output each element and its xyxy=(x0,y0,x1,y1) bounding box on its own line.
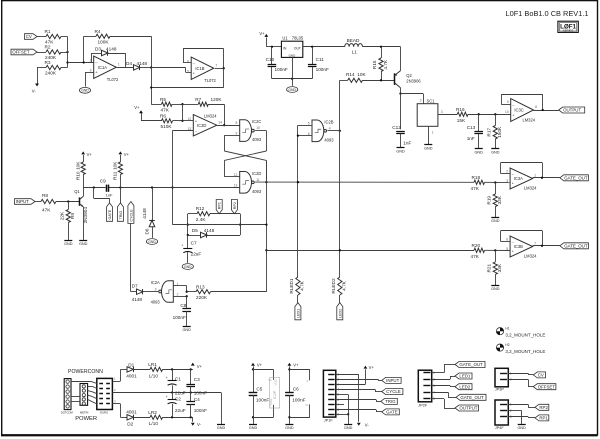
wire jp4 pin3 route xyxy=(508,417,535,418)
wire D4 to IC1B noninv xyxy=(140,67,151,69)
svg-text:GND: GND xyxy=(79,242,88,246)
svg-text:GATE_OUT: GATE_OUT xyxy=(564,243,588,248)
svg-text:C1: C1 xyxy=(175,377,181,382)
svg-text:V-: V- xyxy=(32,89,37,94)
svg-text:2.4K: 2.4K xyxy=(196,217,207,222)
svg-text:GATE: GATE xyxy=(386,410,398,415)
capacitor C1 xyxy=(166,376,186,395)
wire middle rail y=224.6 xyxy=(173,224,267,226)
wire C1 top stub xyxy=(172,369,174,380)
wire IC3C out xyxy=(534,109,559,111)
power V+ above C5 xyxy=(251,362,263,367)
wire R21 to gnd xyxy=(495,274,497,285)
svg-text:L/10: L/10 xyxy=(149,421,159,426)
svg-text:LM324: LM324 xyxy=(524,254,537,259)
wire IC3D out xyxy=(217,125,240,127)
wire R11 bottom xyxy=(120,175,122,188)
wire Q2 top xyxy=(400,47,402,71)
wire U1 gnd pin xyxy=(292,57,294,78)
node LED2 xyxy=(455,384,472,390)
node GATE_OUT xyxy=(560,243,589,249)
svg-text:R20: R20 xyxy=(472,243,481,248)
wire R6 to junction xyxy=(173,120,184,122)
svg-text:SERIES: SERIES xyxy=(563,29,573,33)
svg-text:78L05: 78L05 xyxy=(292,35,304,40)
svg-text:U1: U1 xyxy=(282,35,288,40)
wire column x=339.8 upper xyxy=(339,80,341,277)
svg-text:10: 10 xyxy=(256,126,260,130)
svg-text:OUTPUT: OUTPUT xyxy=(459,406,477,411)
svg-text:IC3D: IC3D xyxy=(197,123,206,128)
wire R10 top stub xyxy=(83,155,85,162)
wire C1 bottom stub xyxy=(172,385,174,392)
svg-text:GND: GND xyxy=(491,219,500,223)
svg-text:2: 2 xyxy=(177,293,179,297)
svg-text:GATE_OUT: GATE_OUT xyxy=(564,175,588,180)
resistor R12 xyxy=(196,206,210,222)
resistor R7 xyxy=(195,97,222,106)
wire R14 left xyxy=(340,80,348,82)
wire jp4 pin1 route xyxy=(508,404,535,407)
svg-text:C7: C7 xyxy=(191,241,197,246)
svg-text:+: + xyxy=(181,244,183,248)
ground GND under R9 xyxy=(64,241,73,246)
svg-text:GND: GND xyxy=(491,287,500,291)
svg-text:R15: R15 xyxy=(372,60,377,69)
wire fb down to loop xyxy=(151,68,224,87)
connector JP1F xyxy=(323,370,339,422)
svg-text:5: 5 xyxy=(506,247,508,251)
power V+ near R6 xyxy=(134,105,143,113)
svg-text:IC2A: IC2A xyxy=(151,280,160,285)
wire C7 to gnd xyxy=(187,252,189,263)
svg-text:12: 12 xyxy=(234,173,238,177)
resistor R1 xyxy=(45,29,62,45)
svg-text:6: 6 xyxy=(506,238,508,242)
wire D3 anode xyxy=(91,53,102,63)
wire Q1 emitter xyxy=(83,207,85,240)
svg-text:CYCLE: CYCLE xyxy=(386,389,401,394)
svg-text:GND: GND xyxy=(288,88,296,92)
wire R17 to gnd xyxy=(495,139,497,149)
resistor R13 xyxy=(196,285,211,301)
svg-text:D6: D6 xyxy=(145,228,150,234)
op-amp IC3C xyxy=(505,99,537,123)
capacitor C11 xyxy=(308,57,329,72)
diode D2 xyxy=(126,409,137,426)
svg-text:D5: D5 xyxy=(192,228,198,233)
wire rail y=250.3 xyxy=(266,249,474,251)
svg-text:GND: GND xyxy=(184,265,192,269)
svg-text:1: 1 xyxy=(432,131,434,135)
transistor Q2 2N3906 xyxy=(394,71,421,88)
wire C5 column bottom xyxy=(252,395,254,424)
svg-text:R7: R7 xyxy=(195,97,201,102)
svg-text:OUTPUT: OUTPUT xyxy=(563,108,581,113)
wire IC2D out long wire xyxy=(255,181,474,183)
wire R9 to gnd xyxy=(68,223,70,240)
wire left trunk xyxy=(150,68,152,105)
svg-text:GND: GND xyxy=(285,426,294,430)
svg-text:9: 9 xyxy=(235,132,237,136)
svg-text:R9: R9 xyxy=(70,213,75,219)
node LED1 xyxy=(455,373,472,379)
wire C10 top xyxy=(271,47,273,64)
regulator U1 78L05 xyxy=(281,35,304,57)
svg-text:R11: R11 xyxy=(113,171,118,180)
svg-text:R19: R19 xyxy=(486,196,491,205)
svg-text:47K: 47K xyxy=(42,208,51,213)
wire IC2C in9 route xyxy=(224,135,239,151)
wire C2 top stub xyxy=(172,393,174,400)
wire R5 to junction xyxy=(172,103,184,105)
wire IC2B in6 xyxy=(298,135,312,137)
wire R14 to Q2 base xyxy=(363,79,395,81)
wire IC3A out xyxy=(533,177,560,179)
wire R16 to IC3C xyxy=(468,113,511,115)
wire C6 column top xyxy=(288,366,290,392)
svg-text:IC1A: IC1A xyxy=(98,65,107,70)
svg-text:150K: 150K xyxy=(497,126,502,138)
capacitor C12 xyxy=(392,125,411,146)
svg-text:+: + xyxy=(166,395,168,399)
svg-text:120K: 120K xyxy=(211,97,223,102)
wire d2 to lr2 xyxy=(133,417,150,419)
node OFFSET xyxy=(11,49,37,55)
svg-text:4.7K: 4.7K xyxy=(383,59,388,70)
wire jp1 pin2 to INPUT xyxy=(336,379,382,380)
ground GND under R19 xyxy=(491,218,500,224)
wire jp1 pin7 stub xyxy=(336,404,344,406)
NAND gate IC2C xyxy=(235,119,261,142)
svg-text:IC2D: IC2D xyxy=(252,171,261,176)
wire C5 column top xyxy=(252,366,254,392)
wire C11 top xyxy=(312,47,314,64)
wire to IC1B noninv xyxy=(151,67,191,72)
wire GATE branch xyxy=(94,188,110,203)
svg-text:POWER: POWER xyxy=(75,416,97,422)
svg-text:CV: CV xyxy=(538,373,544,378)
svg-text:4148: 4148 xyxy=(132,297,143,302)
wire IC1A out to D4 xyxy=(116,67,133,69)
svg-text:4093: 4093 xyxy=(252,189,262,194)
resistor R21 xyxy=(486,262,502,275)
svg-text:33K: 33K xyxy=(497,263,502,272)
svg-text:EURO: EURO xyxy=(100,410,108,414)
wire Q1 collector xyxy=(83,188,85,197)
svg-text:47K: 47K xyxy=(161,107,170,112)
node INPUT xyxy=(15,199,36,205)
wire conn wires b xyxy=(88,386,97,388)
resistor RLED2 xyxy=(331,277,347,295)
svg-text:LM324: LM324 xyxy=(523,118,536,123)
svg-text:7: 7 xyxy=(215,64,217,68)
svg-text:RP1: RP1 xyxy=(539,416,548,421)
svg-text:R14: R14 xyxy=(346,72,355,77)
wire IC2P vss loop xyxy=(253,405,274,418)
wire IC2B input column xyxy=(297,125,299,277)
wire jp1 pin8 to GATE xyxy=(336,410,382,412)
svg-text:CYCLE: CYCLE xyxy=(129,209,133,222)
svg-text:22uF: 22uF xyxy=(175,391,186,396)
svg-text:+: + xyxy=(166,376,168,380)
ground GND under IC1A xyxy=(79,87,90,93)
wire C6 column bottom xyxy=(288,395,290,424)
title text xyxy=(506,9,589,18)
wire CV to R1 xyxy=(37,36,46,38)
wire jp1 pin3 to V+ xyxy=(336,369,366,384)
wire R19 top stub xyxy=(495,183,497,195)
svg-text:V+: V+ xyxy=(134,105,140,110)
svg-text:C4: C4 xyxy=(194,397,200,402)
ground GND under C7 xyxy=(182,264,193,270)
svg-text:C10: C10 xyxy=(266,57,275,62)
svg-text:R18: R18 xyxy=(472,175,481,180)
wire C13 top xyxy=(478,114,480,131)
svg-text:1nF: 1nF xyxy=(403,141,411,146)
power V+ above R11 xyxy=(119,151,130,156)
op-amp IC3D xyxy=(188,114,223,136)
svg-text:GATE_OUT: GATE_OUT xyxy=(459,362,483,367)
node OUTPUT xyxy=(559,107,585,113)
svg-text:TL072: TL072 xyxy=(107,77,119,82)
svg-text:100K: 100K xyxy=(98,39,110,44)
node CYCLE xyxy=(382,389,403,395)
wire RLED2 to LED2 xyxy=(339,295,341,303)
capacitor C4 xyxy=(186,397,207,413)
svg-text:TL072: TL072 xyxy=(204,78,216,83)
svg-text:4001: 4001 xyxy=(126,409,137,414)
capacitor C5 xyxy=(249,387,270,403)
svg-text:GND: GND xyxy=(344,426,353,430)
svg-text:V+: V+ xyxy=(124,152,130,157)
resistor R6 xyxy=(160,113,173,129)
connector X1 DOTCON xyxy=(61,379,74,415)
svg-text:3: 3 xyxy=(506,179,508,183)
node TRIG xyxy=(381,398,398,404)
resistor R15 xyxy=(372,58,388,72)
wire jp3 pin2 route xyxy=(508,379,533,386)
wire V+ to U1 in xyxy=(266,38,281,48)
svg-text:3: 3 xyxy=(433,384,435,388)
svg-text:11: 11 xyxy=(305,403,308,407)
wire IC3B feedback xyxy=(501,231,543,246)
connector JP2F xyxy=(418,370,435,407)
wire R9 top stub xyxy=(68,202,70,210)
NAND gate IC2A xyxy=(151,280,179,304)
wire R13 left stub xyxy=(187,291,196,293)
power V+ above U1 xyxy=(259,31,268,37)
wire IC3A feedback xyxy=(501,163,543,178)
wire R18 to IC3A xyxy=(485,181,511,183)
diode D4 xyxy=(126,61,147,70)
diode D7 xyxy=(132,284,143,303)
svg-text:IC3C: IC3C xyxy=(514,108,523,113)
svg-text:L/10: L/10 xyxy=(149,373,159,378)
svg-text:RLED2: RLED2 xyxy=(331,278,336,294)
resistor R5 xyxy=(160,97,172,113)
wire R15 bottom xyxy=(381,72,383,81)
wire D7 to IC2A out xyxy=(143,291,158,293)
wire R19 to gnd xyxy=(495,207,497,218)
node GATE xyxy=(382,409,400,415)
wire R7 right down xyxy=(208,104,225,126)
ground GND under C12 xyxy=(396,148,405,154)
wire V+ to R6 xyxy=(141,113,162,121)
svg-text:IC3A: IC3A xyxy=(514,176,523,181)
wire OFFSET to R2 xyxy=(37,52,46,54)
wire IC3D inv from below xyxy=(171,131,193,225)
svg-text:VSS: VSS xyxy=(269,399,273,405)
diode D5 xyxy=(192,228,215,238)
svg-text:R17: R17 xyxy=(486,128,491,137)
svg-text:47K: 47K xyxy=(471,186,480,191)
wire jp2 pin1 route xyxy=(432,365,455,373)
svg-text:22uF: 22uF xyxy=(175,408,186,413)
wire jp2 pin4 route xyxy=(432,392,456,397)
svg-text:2: 2 xyxy=(420,98,422,102)
node RP1 xyxy=(535,415,549,421)
svg-text:GND: GND xyxy=(217,426,226,430)
svg-text:240K: 240K xyxy=(45,71,57,76)
svg-text:GND: GND xyxy=(491,151,500,155)
wire R17 top stub xyxy=(495,114,497,125)
connector JP4F xyxy=(495,400,512,430)
svg-text:10K: 10K xyxy=(357,72,366,77)
svg-text:C11: C11 xyxy=(316,57,325,62)
resistor R20 xyxy=(471,243,485,259)
svg-text:100nF: 100nF xyxy=(173,315,186,320)
svg-text:V+: V+ xyxy=(369,365,375,370)
wire IC1B out xyxy=(215,67,225,69)
wire conn wires d xyxy=(88,395,97,399)
ground GND power xyxy=(217,425,226,430)
svg-text:LED2: LED2 xyxy=(338,309,342,318)
diode D1 xyxy=(126,362,137,378)
svg-text:4093: 4093 xyxy=(324,137,334,142)
svg-text:22uF: 22uF xyxy=(191,252,202,257)
pin number 3 xyxy=(114,400,116,404)
wire C4 top stub xyxy=(190,393,192,402)
svg-text:BEAD: BEAD xyxy=(347,38,360,43)
svg-text:4093: 4093 xyxy=(151,299,161,304)
resistor R11 xyxy=(113,161,123,180)
svg-text:D4: D4 xyxy=(126,61,132,66)
ground GND under R17 xyxy=(491,149,500,155)
op-amp IC1A xyxy=(90,56,120,82)
wire C13 to gnd xyxy=(478,134,480,149)
wire gnd stem xyxy=(292,79,294,86)
svg-text:220K: 220K xyxy=(196,295,208,300)
resistor RLED1 xyxy=(289,277,305,295)
inductor BEAD xyxy=(345,38,363,54)
node GATE_OUT xyxy=(455,362,485,368)
mount hole H2 xyxy=(496,343,545,354)
svg-text:7: 7 xyxy=(534,242,536,246)
resistor R17 xyxy=(486,126,502,140)
node CV xyxy=(533,372,545,378)
svg-text:H2: H2 xyxy=(505,343,509,347)
svg-text:R3: R3 xyxy=(45,60,51,65)
wire jp3 pin1 route xyxy=(508,373,533,375)
label POWER xyxy=(75,416,97,422)
wire IC1A noninv to gnd xyxy=(85,72,94,87)
svg-text:LED2: LED2 xyxy=(459,384,471,389)
wire jp2 pin3 route xyxy=(432,386,455,387)
wire R12 right vert xyxy=(239,214,241,235)
svg-text:V-: V- xyxy=(365,422,370,427)
svg-text:D3: D3 xyxy=(95,46,101,51)
svg-text:100nF: 100nF xyxy=(194,391,207,396)
wire C11 bottom xyxy=(312,67,314,79)
wire jp1 pin4 to CYCLE xyxy=(336,389,382,391)
svg-text:GND: GND xyxy=(81,89,89,93)
svg-text:V+: V+ xyxy=(293,362,299,367)
svg-text:OUT: OUT xyxy=(294,46,301,50)
wire Q2 to C12 xyxy=(400,94,402,130)
svg-text:R5: R5 xyxy=(160,97,166,102)
op-amp IC3B xyxy=(506,236,537,259)
svg-text:4093: 4093 xyxy=(252,137,262,142)
wire C4 bottom stub xyxy=(190,404,192,417)
svg-text:1nF: 1nF xyxy=(106,193,113,198)
node RP1 xyxy=(216,200,222,214)
svg-text:100nF: 100nF xyxy=(194,408,207,413)
svg-text:TRIG: TRIG xyxy=(119,211,123,220)
node LED1 xyxy=(295,303,301,320)
svg-text:15K: 15K xyxy=(457,118,466,123)
wire R12 left stub xyxy=(188,213,197,215)
node RP2 xyxy=(535,404,549,410)
svg-text:R2: R2 xyxy=(45,45,51,50)
svg-text:12: 12 xyxy=(188,117,192,121)
ghost IC2P power pins xyxy=(268,378,279,408)
mount hole H1 xyxy=(496,327,545,338)
svg-text:IC2B: IC2B xyxy=(324,119,333,124)
svg-text:LR2: LR2 xyxy=(148,410,157,415)
ground GND under C8 xyxy=(182,327,191,332)
box SC1 xyxy=(417,98,443,134)
pin number 2 xyxy=(114,388,116,392)
wire R4 right down xyxy=(110,36,152,67)
svg-text:R10: R10 xyxy=(75,171,80,180)
wire cross a xyxy=(224,151,266,182)
svg-text:DOTCOM: DOTCOM xyxy=(61,411,74,415)
wire euro pin3 down xyxy=(112,404,127,418)
wire R12 left vert xyxy=(187,214,189,248)
ground GND under C13 xyxy=(474,149,483,155)
svg-text:4.7K: 4.7K xyxy=(342,280,347,291)
svg-text:5: 5 xyxy=(187,70,189,74)
svg-text:4.7K: 4.7K xyxy=(300,280,305,291)
svg-text:10K: 10K xyxy=(113,161,118,170)
svg-text:C8: C8 xyxy=(180,303,186,308)
svg-text:V+: V+ xyxy=(197,364,203,369)
node CV xyxy=(25,34,38,40)
svg-text:GND: GND xyxy=(148,240,156,244)
svg-text:100nF: 100nF xyxy=(275,67,288,72)
node GATE xyxy=(107,203,113,221)
node GATE_OUT xyxy=(456,394,486,400)
wire cross b xyxy=(224,151,266,177)
junction node D4/R4 xyxy=(150,66,152,68)
wire C12 to gnd xyxy=(400,134,402,148)
power V- power xyxy=(191,422,202,427)
svg-text:GND: GND xyxy=(249,426,258,430)
capacitor C2 xyxy=(166,395,186,413)
wire jp1 pin5 to gnd col xyxy=(336,395,350,416)
wire conn wires g xyxy=(71,401,80,403)
